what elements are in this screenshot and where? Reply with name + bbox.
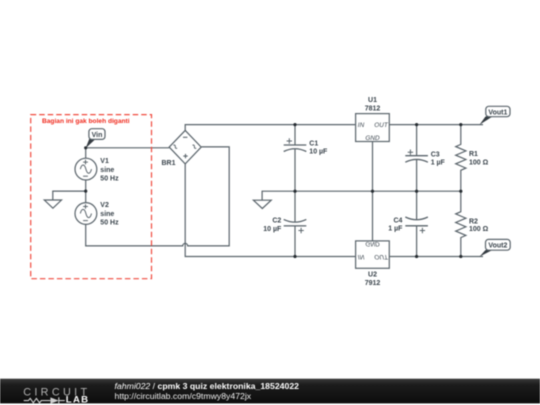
svg-text:10 µF: 10 µF (309, 148, 328, 155)
svg-text:U2: U2 (368, 272, 377, 279)
svg-text:1 µF: 1 µF (431, 160, 446, 167)
svg-text:R2: R2 (469, 218, 478, 225)
svg-text:Vin: Vin (92, 132, 103, 139)
svg-text:LAB: LAB (66, 395, 90, 405)
svg-text:sine: sine (100, 211, 114, 218)
svg-text:1 µF: 1 µF (388, 226, 403, 233)
svg-text:7812: 7812 (365, 106, 381, 113)
svg-text:100 Ω: 100 Ω (469, 160, 489, 167)
svg-text:C1: C1 (309, 141, 318, 148)
svg-text:OUT: OUT (374, 253, 389, 260)
svg-text:http://circuitlab.com/c9tmwy8y: http://circuitlab.com/c9tmwy8y472jx (115, 391, 252, 401)
svg-text:50 Hz: 50 Hz (100, 219, 119, 226)
svg-text:50 Hz: 50 Hz (100, 175, 119, 182)
svg-text:fahmi022 / cpmk 3 quiz elektro: fahmi022 / cpmk 3 quiz elektronika_18524… (115, 381, 300, 391)
svg-text:10 µF: 10 µF (263, 226, 282, 233)
svg-text:R1: R1 (469, 151, 478, 158)
svg-text:BR1: BR1 (162, 160, 176, 167)
svg-text:7912: 7912 (365, 280, 381, 287)
svg-text:OUT: OUT (374, 122, 389, 129)
svg-text:100 Ω: 100 Ω (469, 226, 489, 233)
svg-text:V2: V2 (100, 202, 109, 209)
svg-text:GND: GND (365, 240, 380, 247)
svg-text:C2: C2 (272, 218, 281, 225)
svg-text:Bagian ini gak boleh diganti: Bagian ini gak boleh diganti (42, 118, 130, 125)
svg-text:C3: C3 (431, 151, 440, 158)
svg-text:IN: IN (358, 122, 365, 129)
svg-text:IN: IN (358, 253, 365, 260)
svg-text:sine: sine (100, 167, 114, 174)
svg-text:V1: V1 (100, 158, 109, 165)
svg-text:Vout1: Vout1 (488, 109, 507, 116)
svg-text:C4: C4 (393, 217, 402, 224)
svg-text:U1: U1 (368, 97, 377, 104)
svg-text:Vout2: Vout2 (488, 243, 507, 250)
svg-text:GND: GND (365, 135, 380, 142)
